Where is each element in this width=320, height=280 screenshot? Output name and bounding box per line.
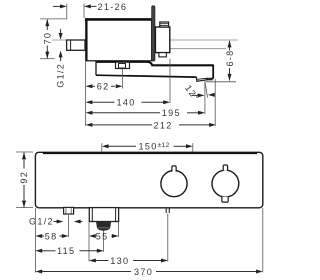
knob right bottom tab (222, 197, 228, 202)
svg-text:12°: 12° (183, 83, 201, 103)
dim 92 (23, 153, 25, 208)
dim 58 (35, 234, 42, 238)
small tab below panel (130 ref) (165, 208, 167, 213)
dim 212 (86, 123, 93, 127)
wall plate bar (152, 6, 155, 61)
dim 92 ticks (16, 151, 33, 153)
12 degree tilted line (205, 81, 208, 98)
svg-text:92: 92 (19, 171, 29, 184)
extension lines below panel (34, 208, 36, 273)
dim 70 text (43, 30, 53, 46)
G1/2 leader arrows (54, 221, 58, 223)
svg-text:6-8: 6-8 (225, 49, 235, 66)
svg-text:G1/2: G1/2 (29, 216, 54, 226)
svg-text:62: 62 (97, 82, 110, 92)
knob circle left (161, 171, 187, 197)
spout tip right edge thick (212, 65, 214, 79)
G1/2 inlet stub (67, 40, 85, 50)
knob right top nub (223, 165, 227, 171)
svg-text:58: 58 (45, 231, 58, 241)
knob circle right (212, 170, 239, 197)
dim 195 extension line (shared with 12deg vertical) (204, 81, 206, 114)
svg-text:150±12: 150±12 (139, 142, 170, 152)
aerator front (dark) (96, 222, 111, 231)
body left thick edge (85, 18, 87, 60)
spout stub front (89, 208, 118, 222)
dim 6-8 (206, 81, 236, 83)
dim 130 (89, 259, 96, 263)
12 degree arrows (192, 94, 199, 96)
svg-text:130: 130 (110, 256, 129, 266)
aerator (side view) (196, 77, 213, 81)
dim 370 (35, 270, 42, 274)
svg-text:55: 55 (96, 231, 109, 241)
knob side profile (155, 27, 169, 53)
svg-text:195: 195 (162, 108, 181, 118)
dim 150+-12 (102, 144, 109, 148)
svg-text:G1/2: G1/2 (55, 63, 65, 88)
svg-text:212: 212 (154, 120, 173, 130)
knob axis line (156, 48, 226, 50)
dim 115 (35, 249, 42, 253)
stub inner line (70, 40, 72, 50)
dim 140 extension line (169, 59, 171, 103)
dim 21-26 extension lines (66, 4, 68, 20)
dim 150 extension lines (101, 143, 103, 152)
aerator dark corner (206, 78, 213, 81)
panel (35, 152, 262, 208)
svg-text:21-26: 21-26 (98, 2, 128, 12)
dim 212 extension line (214, 79, 216, 126)
panel top accent (43, 152, 257, 154)
centerline G1/2 axis (52, 39, 238, 41)
clamp inner (119, 64, 126, 69)
knob top tab ribs (160, 23, 169, 25)
body top thick edge (85, 18, 152, 21)
body (side view) (86, 19, 152, 60)
dim 55 (89, 234, 96, 238)
G1/2 label arrows (side view) (60, 29, 62, 34)
knob top tab (160, 22, 169, 27)
spout stub inner lines (91, 208, 93, 222)
dim 70 line and arrows (46, 20, 48, 59)
clamp on spout (116, 62, 130, 68)
knob left top nub (172, 166, 176, 172)
dim 195 (86, 111, 93, 115)
svg-text:140: 140 (117, 98, 136, 108)
svg-text:370: 370 (134, 267, 153, 277)
dim 21-26 arrows (60, 4, 67, 8)
dim 140 (86, 100, 93, 104)
svg-text:70: 70 (43, 32, 53, 45)
aerator inner line (196, 78, 208, 79)
dim 62 (86, 84, 93, 88)
knob bottom tab (159, 53, 166, 57)
dim 70 ticks (40, 18, 67, 20)
spout bottom edge (96, 75, 196, 77)
spout top thick line (96, 62, 213, 66)
dim 62 extension lines (85, 61, 87, 127)
svg-text:115: 115 (57, 246, 75, 256)
spout left edge (95, 61, 97, 75)
stub1 outlet G1/2 (64, 207, 74, 214)
stub1 inner lines (65, 208, 67, 214)
